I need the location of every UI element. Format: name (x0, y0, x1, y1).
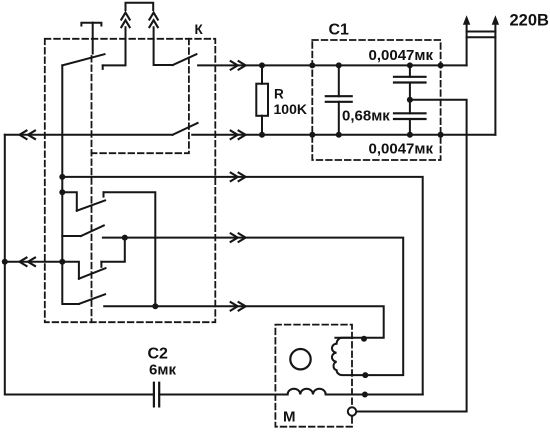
svg-text:0,68мк: 0,68мк (342, 108, 390, 125)
right chevrons on wire 1 (231, 173, 246, 181)
capacitor 0.0047uF top stem (409, 65, 411, 134)
220V right pin vertical (494, 25, 496, 135)
switch blade K2 (173, 54, 197, 65)
mechanical linkage dashed line (91, 56, 93, 322)
capacitor block C1 dashed box (312, 40, 440, 160)
wire B: from far-left vertical to blade K3 pivot (5, 134, 173, 136)
capacitor 0.68uF plates (326, 96, 352, 102)
switch S1 contact line and vertical to wire 3 (104, 192, 156, 306)
up arrow chevrons right pin (149, 13, 157, 28)
right chevrons on wire 3 (231, 302, 246, 310)
wire B contact side to 220V right pin (192, 134, 495, 136)
svg-text:100K: 100K (274, 101, 307, 117)
left feeder vertical from K1 pivot down to switch bank (62, 65, 79, 304)
left chevrons on wire L (20, 258, 36, 266)
wire L: left net y=261.8 with step to S3 (5, 262, 79, 279)
svg-text:0,0047мк: 0,0047мк (369, 47, 434, 64)
switch S3 contact stub (100, 262, 102, 267)
relay box K outer dashed enclosure (45, 39, 216, 322)
switch S4 blade (79, 294, 105, 304)
relay K inner dashed contact group boundary (92, 39, 189, 153)
push button stem (92, 23, 94, 54)
output jack bracket (126, 3, 154, 10)
capacitor C2 plates (154, 383, 159, 407)
up arrow chevrons left pin (121, 13, 129, 28)
capacitor 0.0047uF bottom plates (394, 113, 426, 119)
left chevrons on wire B (20, 131, 36, 139)
svg-text:К: К (195, 22, 204, 37)
wire C: C1 midpoint tap to motor terminal (356, 100, 466, 412)
right chevrons on wire 2 (231, 233, 246, 241)
wire 2: net y=237.6 to motor aux winding bottom (103, 238, 403, 376)
motor aux winding (vertical coil) (332, 338, 352, 375)
svg-text:0,0047мк: 0,0047мк (369, 141, 434, 158)
wire from main winding right to wire 1 loop (326, 394, 423, 396)
220V right pin arrow (492, 15, 499, 25)
capacitor 0.0047uF top plates (394, 77, 426, 83)
push button actuator bar (81, 23, 101, 26)
right chevrons on wire B (231, 131, 246, 139)
svg-text:С1: С1 (329, 22, 350, 39)
motor terminal circle (348, 407, 356, 415)
switch blade K1 (push contact) (62, 54, 104, 65)
wire 1: net y=176.9 to motor run loop (62, 177, 422, 395)
svg-text:6мк: 6мк (149, 362, 176, 379)
capacitor 0.68uF stem (338, 65, 340, 134)
far-left vertical wire with bottom run to C2 (5, 135, 154, 395)
svg-text:R: R (274, 87, 284, 102)
switch S2 blade (81, 226, 104, 237)
motor M dashed box (275, 325, 352, 427)
resistor R1 leads (261, 65, 263, 134)
motor rotor circle (290, 349, 310, 369)
plug connector double bars (467, 32, 496, 38)
switch blade K3 (173, 123, 198, 135)
wire 3: net y=306.3 to motor aux winding top (104, 306, 384, 338)
svg-text:М: М (283, 409, 296, 426)
wire A: top net y=65.4 to 220V left pin (198, 64, 467, 66)
resistor R1 body (256, 84, 268, 116)
motor main winding (horizontal coil) (288, 389, 326, 395)
wire right jack pin down to blade K2 pivot (154, 27, 173, 65)
220V left pin vertical (466, 25, 468, 66)
switch S3 contact link up to wire 2 (101, 238, 124, 262)
switch S1 contact stub (103, 192, 105, 196)
switch S3 blade (79, 268, 106, 279)
switch S2 feed (62, 235, 81, 237)
svg-text:С2: С2 (148, 346, 169, 363)
right chevrons on wire A (231, 61, 246, 69)
contact stub K1 (102, 65, 104, 69)
switch S1 blade (77, 200, 105, 210)
wire from C2 to motor main winding (159, 394, 287, 396)
switch S1 feed step (62, 192, 77, 210)
wire left jack pin down to contact K1 (103, 27, 126, 65)
220V left pin arrow (463, 15, 470, 25)
svg-text:220В: 220В (510, 11, 550, 29)
